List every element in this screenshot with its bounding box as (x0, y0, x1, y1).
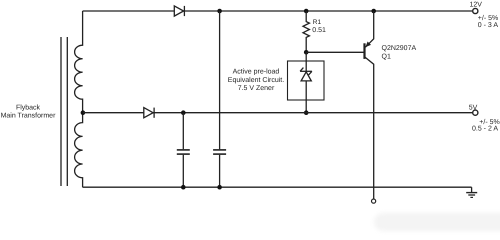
wire: zener branch into box (305, 52, 307, 71)
transformer T1 12V winding (75, 11, 83, 113)
svg-text:0.51: 0.51 (312, 27, 326, 34)
wire: top 12V rail (83, 10, 473, 12)
svg-text:5V: 5V (469, 104, 478, 111)
wire: Q1 emitter from top rail (365, 11, 373, 47)
terminal: collector open circle (372, 199, 376, 203)
node: bottom rail / C1 junction (181, 185, 186, 190)
capacitor C2 (12V filter) (213, 150, 226, 154)
resistor R1 (303, 11, 309, 52)
svg-text:Main Transformer: Main Transformer (1, 112, 57, 120)
transistor Q1 emitter arrow (365, 42, 371, 48)
node: top rail / Q1 emitter junction (371, 9, 376, 14)
node: R1 bottom / Q1 base / zener top (304, 50, 309, 55)
zener equivalent-circuit box (288, 61, 325, 100)
svg-text:Flyback: Flyback (16, 104, 41, 112)
diode D1 (12V rectifier) (174, 6, 184, 16)
terminal: 12V output (473, 8, 478, 13)
wire: C1 lower segment (182, 155, 184, 187)
svg-text:+/- 5%: +/- 5% (479, 118, 499, 126)
node: 5V rail / C1 junction (181, 110, 186, 115)
svg-text:Q2N2907A: Q2N2907A (382, 45, 417, 52)
diode D2 (5V rectifier) (144, 108, 154, 118)
svg-text:Equivalent Circuit.: Equivalent Circuit. (228, 76, 284, 84)
svg-text:+/- 5%: +/- 5% (478, 14, 498, 22)
svg-text:0.5 - 2 A: 0.5 - 2 A (472, 126, 498, 133)
svg-text:12V: 12V (469, 1, 482, 8)
svg-text:Active pre-load: Active pre-load (233, 68, 280, 76)
svg-text:R1: R1 (313, 19, 322, 26)
node: bottom rail / C2 junction (217, 185, 222, 190)
ground (466, 187, 477, 197)
transistor Q1 collector (365, 57, 374, 199)
transistor Q1 base bar (363, 43, 365, 59)
zener diode D3 (7.5 V) (300, 68, 312, 81)
node: top rail / C2 branch junction (217, 9, 222, 14)
svg-text:Q1: Q1 (382, 54, 391, 61)
wire: base node to Q1 base (306, 51, 364, 53)
svg-text:0 - 3 A: 0 - 3 A (478, 22, 499, 29)
wire: zener anode to 5V rail (305, 81, 307, 113)
capacitor C1 (5V filter) (177, 150, 190, 154)
node: transformer center tap on 5V rail (81, 110, 86, 115)
transformer T1 5V winding (75, 113, 83, 188)
watermark blob bottom right (374, 213, 500, 231)
node: zener / 5V rail junction (304, 110, 309, 115)
node: top rail / R1 junction (304, 9, 309, 14)
wire: C2 branch upper segment (crosses 5V rail, no junction) (219, 11, 221, 149)
wire: bottom ground rail (83, 186, 472, 188)
wire: C1 upper segment (182, 113, 184, 150)
wire: 5V rail (83, 112, 473, 114)
transformer T1 core (61, 37, 67, 186)
svg-text:7.5 V Zener: 7.5 V Zener (238, 85, 275, 92)
terminal: 5V output (473, 110, 478, 115)
wire: C2 branch lower segment (219, 155, 221, 187)
